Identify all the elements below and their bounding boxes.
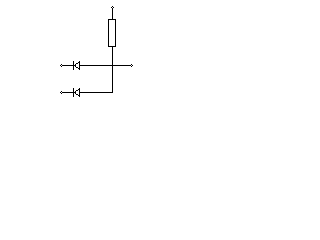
diode D1 (cathode bar + left-pointing triangle) — [73, 61, 80, 70]
port P4 (open diamond terminal, branch 2 left) — [60, 91, 63, 94]
diode D2 (cathode bar + left-pointing triangle) — [73, 88, 80, 97]
port P1 (open diamond terminal, top) — [111, 6, 114, 9]
wire W2 (R1 bottom vertical bus down to branch 2) — [112, 47, 113, 93]
wire W3 (P2 to D1 cathode) — [62, 65, 74, 66]
wire W1 (P1 to R1 top) — [112, 9, 113, 19]
wire W5 (P4 to D2 cathode) — [62, 92, 74, 93]
port P2 (open diamond terminal, branch 1 left) — [60, 64, 63, 67]
wire W4 (D1 anode to P3, crossing bus) — [80, 65, 130, 66]
wire W6 (D2 anode to bus corner) — [80, 92, 113, 93]
resistor R1 (box body) — [108, 19, 116, 47]
port P3 (open diamond terminal, right) — [130, 64, 133, 67]
